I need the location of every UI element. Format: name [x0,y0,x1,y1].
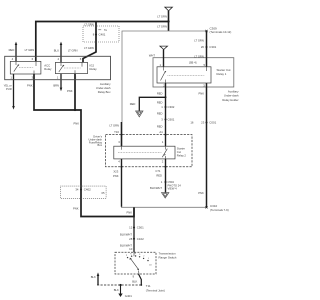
connector triangle A (to another page) [165,7,173,11]
node dots at driver's box edge crossings [121,134,123,136]
svg-text:BLK/WHT: BLK/WHT [120,232,132,236]
svg-text:RED: RED [157,92,163,96]
svg-text:RED: RED [130,102,136,106]
connector C102 symbol [133,237,135,241]
wire switch output BLK [139,274,142,285]
svg-text:LT GRN: LT GRN [84,23,94,27]
big gray box (C309/C310 terminals) partial outline [121,31,207,207]
svg-text:(Terminal Joint): (Terminal Joint) [146,289,165,293]
svg-text:26: 26 [201,45,205,49]
connector C501 symbol [133,226,135,230]
Auxiliary Under-dash Relay Holder box [153,58,234,87]
wire BLK stub with arrow up [97,276,99,286]
ground symbol (open double triangle) on RED branch [136,111,143,117]
relay IG2 outline [55,62,87,73]
Auxiliary Under-dash Relay Box outline [5,56,111,79]
svg-text:PNK: PNK [198,92,204,96]
wire LT GRN / PNK right vertical C309 to C310 [206,31,208,207]
connector C301 symbol [205,45,207,49]
wire LT GRN T16 into driver's box [121,122,123,146]
wire relay2 pin2 BLK/WHT to ground [165,159,167,193]
dotted box around C402 [60,186,106,198]
wire branch to C401 and IG2 pin 6 [83,22,96,63]
wire busbar LT GRN top [36,22,169,62]
svg-text:D4: D4 [149,265,151,267]
svg-text:PNK: PNK [73,206,79,210]
svg-text:10: 10 [129,247,133,251]
dotted box around To/C401 [83,26,119,42]
svg-text:BLK: BLK [132,279,137,283]
svg-text:(Terminals 7-9): (Terminals 7-9) [210,208,229,212]
node junction dot T11 [119,284,121,286]
svg-text:LT GRN: LT GRN [109,124,119,128]
svg-text:C601: C601 [168,118,175,122]
connector triangle B (WHT from ignition) [160,46,168,49]
wire relay2 pin4 down to box bottom edge [121,159,123,207]
svg-text:Relay Box: Relay Box [98,90,111,94]
svg-text:C71: C71 [155,169,161,173]
svg-text:C501: C501 [137,226,144,230]
svg-text:LT GRN: LT GRN [25,48,35,52]
svg-text:LT GRN: LT GRN [68,49,78,53]
svg-text:16: 16 [190,121,194,125]
svg-text:28: 28 [129,237,133,241]
svg-text:WHT: WHT [149,53,155,57]
wire ACC relay pin 1 stub with arrow down [13,74,15,107]
svg-text:[SB 4]: [SB 4] [189,61,197,65]
svg-text:PNK: PNK [27,83,33,87]
svg-text:BLU: BLU [54,49,59,53]
svg-text:2: 2 [143,256,144,258]
ground symbol (open double triangle) [162,193,169,198]
node junction dot pin2 branch [74,109,76,111]
svg-text:T16: T16 [114,130,119,134]
svg-text:23: 23 [201,121,205,125]
svg-text:RED: RED [157,101,163,105]
node junction dot RED branch [165,96,167,98]
svg-text:LT GRN: LT GRN [84,46,94,50]
svg-text:Relay: Relay [90,67,98,71]
svg-text:BLK: BLK [91,275,96,279]
connector C310 cross on box edge [205,206,207,208]
svg-text:C302: C302 [168,105,175,109]
svg-text:A1: A1 [159,130,163,134]
connector C401 symbol on wire [95,33,97,37]
svg-text:PNK: PNK [126,211,132,215]
svg-text:LT GRN: LT GRN [194,39,204,43]
switch position labels [126,253,152,266]
svg-text:YEL or: YEL or [4,83,12,87]
svg-text:PNK: PNK [113,174,119,178]
svg-text:BRN: BRN [53,83,59,87]
wire from connector triangle A [168,11,170,31]
svg-text:To: To [104,28,107,32]
wire IG2 relay pin 1 stub with arrow down [60,74,62,88]
svg-text:Range Switch: Range Switch [159,255,177,259]
wire IG2 pin 2 branch [74,74,76,110]
relay ACC outline [10,61,41,74]
connector C402 symbol on PNK wire [80,188,82,192]
svg-text:05: 05 [102,191,105,195]
relay IG2 internals [59,62,82,73]
connector C001 symbol [205,121,207,125]
connector C309 cross on box edge [205,30,207,32]
svg-text:Cut: Cut [177,150,181,154]
ground G401 filled triangle [118,294,122,298]
driver's under-dash fuse/relay box dashed outline [106,135,193,167]
svg-text:C402: C402 [84,188,91,192]
relay2 internals [118,146,167,159]
connector C504 symbol [164,180,166,184]
svg-text:RED: RED [157,124,163,128]
svg-text:PUR: PUR [6,87,12,91]
svg-text:PNK: PNK [67,89,73,93]
svg-text:(Terminals 10-12): (Terminals 10-12) [210,30,232,34]
wire IG2 relay pin 4 stub with arrow [60,45,62,63]
svg-text:LT GRN: LT GRN [157,24,167,28]
svg-text:34: 34 [75,188,79,192]
svg-text:PNK: PNK [198,191,204,195]
relay ACC internals [14,61,36,74]
connector C601 symbol [164,118,166,122]
svg-text:C301: C301 [209,45,216,49]
svg-text:1: 1 [148,258,149,260]
svg-text:T11: T11 [146,284,151,288]
svg-text:C001: C001 [209,121,216,125]
svg-text:Relay Holder: Relay Holder [222,98,238,102]
transmission range switch dashed outline [115,252,156,274]
relay Starter Cut Relay 2 outline [114,146,175,159]
svg-text:BLK: BLK [114,288,119,292]
connector C302 symbol [164,105,166,109]
svg-text:RED: RED [9,48,15,52]
svg-text:Relay 1: Relay 1 [217,72,227,76]
wire WHT to relay1 pin 1 [163,50,165,67]
wire relay1 pin2 RED chain down to relay2 pin1 [165,83,167,146]
svg-text:C401: C401 [99,33,106,37]
svg-text:Relay: Relay [44,67,52,71]
svg-text:LT GRN: LT GRN [157,14,167,18]
svg-text:G401: G401 [125,294,132,298]
node junction dot busbar/triangle-A wire [167,20,169,22]
svg-text:RED: RED [157,111,163,115]
wire PNK down to transmission range switch [133,207,135,252]
wire ACC relay pin 4 stub with arrow [15,45,17,62]
svg-text:X23: X23 [113,170,118,174]
svg-text:Starter: Starter [177,147,185,151]
relay1 internals [161,67,207,83]
svg-text:PNK: PNK [73,122,79,126]
wire main PNK path ACC pin3 to box edge C310 [34,74,134,217]
svg-text:C102: C102 [137,237,144,241]
wire RED branch to body ground [139,97,165,111]
T11 terminal joint dashed wire [97,284,141,286]
relay Starter Cut Relay 1 outline [157,67,211,83]
svg-text:12: 12 [129,226,133,230]
svg-text:VIEW 4: VIEW 4 [168,187,178,191]
switch internals [131,252,140,274]
svg-text:BLK/WHT: BLK/WHT [150,186,162,190]
svg-text:Relay 2: Relay 2 [177,153,187,157]
wire BLK down to G401 [120,285,122,294]
svg-text:Box: Box [98,143,103,147]
svg-text:LT GRN: LT GRN [194,55,204,59]
svg-text:RED: RED [156,173,162,177]
